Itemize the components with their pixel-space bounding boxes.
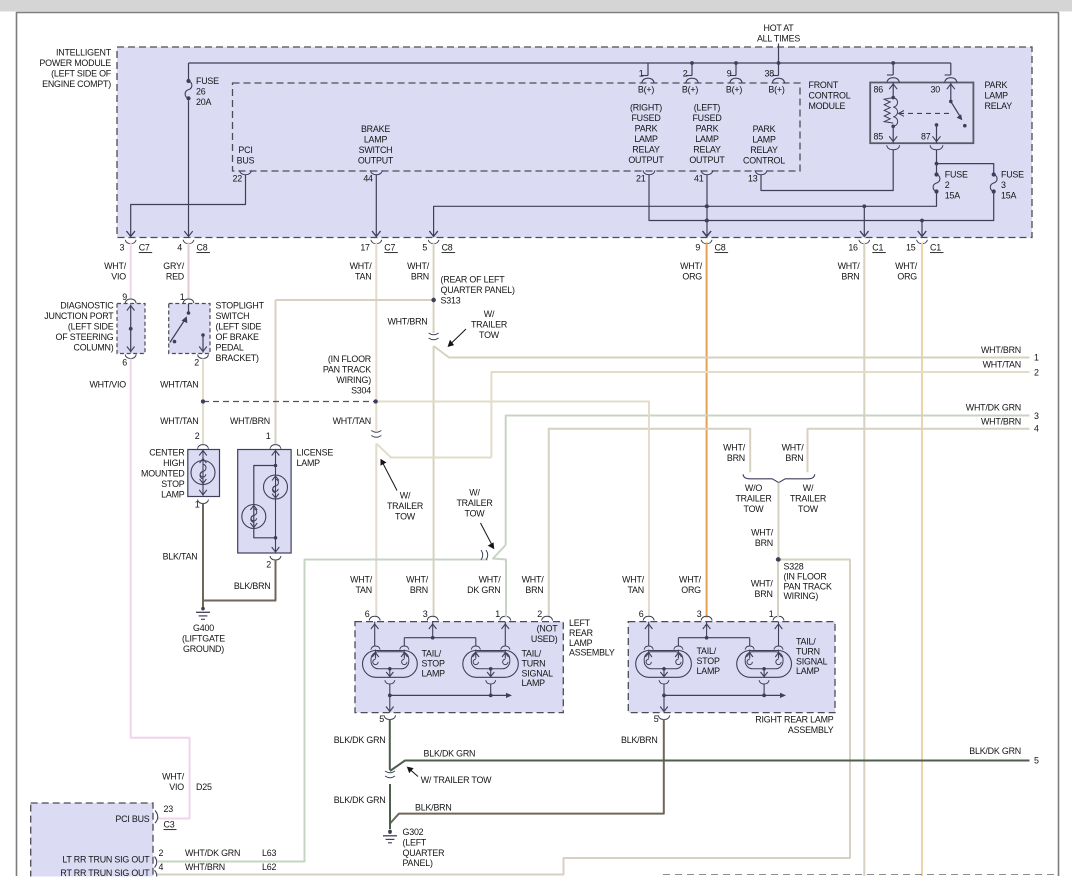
svg-text:TAN: TAN	[356, 585, 373, 595]
svg-text:RELAY: RELAY	[693, 145, 721, 155]
svg-text:2: 2	[266, 560, 271, 570]
connector arcs above DJP and stoplight switch	[125, 299, 136, 303]
svg-text:CENTER: CENTER	[149, 448, 184, 458]
svg-text:WHT/TAN: WHT/TAN	[160, 416, 198, 426]
svg-text:TRAILER: TRAILER	[471, 320, 507, 330]
module Right Rear Lamp Assembly box	[628, 622, 835, 713]
pin 1 FCM B+	[647, 63, 649, 76]
svg-text:BRN: BRN	[411, 272, 429, 282]
svg-text:15: 15	[906, 243, 916, 253]
svg-text:TRAILER: TRAILER	[790, 494, 826, 504]
svg-text:(REAR OF LEFT: (REAR OF LEFT	[441, 275, 506, 285]
wire WHT/BRN S328 to right lamp pin1	[777, 560, 779, 618]
wire 2 WHT/TAN	[491, 372, 1029, 458]
pin 23 arc	[155, 811, 158, 824]
svg-text:22: 22	[233, 174, 243, 184]
wire pin22 to connector 3-C7	[131, 175, 246, 237]
pin 86 stub	[892, 63, 894, 75]
svg-text:WHT/: WHT/	[162, 772, 185, 782]
svg-text:STOP: STOP	[161, 479, 184, 489]
svg-text:RED: RED	[166, 272, 184, 282]
pin 2 FCM B+	[691, 63, 693, 76]
connector arcs above lamps	[198, 445, 209, 449]
relay pin 87 wire	[935, 123, 939, 127]
svg-text:(IN FLOOR: (IN FLOOR	[784, 571, 827, 581]
svg-text:W/: W/	[484, 309, 495, 319]
svg-text:2: 2	[1034, 368, 1039, 378]
left lamp pin3 wire and tee	[432, 622, 434, 638]
wire fuse26 to connector 4-C8	[188, 101, 190, 237]
connector 4 C8	[184, 231, 192, 236]
svg-text:LAMP: LAMP	[297, 458, 321, 468]
pin 44 FCM brake lamp switch output	[370, 170, 382, 174]
svg-text:4: 4	[159, 862, 164, 872]
svg-text:RELAY: RELAY	[750, 145, 778, 155]
svg-text:RELAY: RELAY	[985, 101, 1013, 111]
svg-text:C7: C7	[384, 243, 395, 253]
svg-text:WHT/: WHT/	[723, 443, 746, 453]
svg-text:WHT/: WHT/	[622, 575, 645, 585]
svg-text:GRY/: GRY/	[163, 261, 184, 271]
arrow to pin1 junction break	[481, 523, 492, 544]
wire WHT/BRN continues down to left lamp pin3	[433, 346, 435, 618]
svg-text:VIO: VIO	[169, 782, 184, 792]
wire WHT/BRN trailer-tow branch to edge wire 1	[434, 346, 1030, 358]
svg-text:2: 2	[195, 431, 200, 441]
svg-text:RIGHT REAR LAMP: RIGHT REAR LAMP	[755, 715, 833, 725]
license lamp internal wires	[275, 450, 277, 538]
svg-text:(LEFT: (LEFT	[403, 837, 427, 847]
DJP internal bus wire	[130, 305, 132, 353]
wire WHT/VIO D25 from DJP pin6 to PCI bus connector	[131, 359, 190, 819]
svg-text:VIO: VIO	[111, 272, 126, 282]
svg-text:BRN: BRN	[525, 585, 543, 595]
wire net fuse3 output (line B)	[649, 175, 994, 221]
connector 5 C8	[429, 231, 437, 236]
svg-text:FUSE: FUSE	[1001, 170, 1024, 180]
svg-text:(LEFT): (LEFT)	[694, 103, 721, 113]
right lamp ground bus	[664, 694, 783, 696]
svg-text:TAN: TAN	[355, 272, 372, 282]
connector arc below CHMSL	[198, 500, 209, 504]
splice dot overlays S304 right	[374, 399, 378, 403]
connector 16 C1	[860, 231, 868, 236]
relay switch common wire with up arrow	[950, 83, 952, 102]
svg-text:TOW: TOW	[479, 330, 500, 340]
svg-text:44: 44	[363, 174, 373, 184]
svg-text:BRN: BRN	[410, 585, 428, 595]
splice S328 dot	[776, 557, 780, 561]
svg-text:4: 4	[1034, 424, 1039, 434]
svg-text:WHT/: WHT/	[751, 528, 774, 538]
right lamp pin arcs	[643, 616, 654, 620]
bulb right tail/stop	[636, 651, 692, 678]
svg-text:TOW: TOW	[744, 504, 765, 514]
wire WHT/TAN from stoplight pin2 to S304	[202, 359, 204, 402]
svg-text:(LEFT SIDE: (LEFT SIDE	[216, 322, 262, 332]
svg-text:1: 1	[639, 69, 644, 79]
svg-text:WHT/TAN: WHT/TAN	[160, 380, 198, 390]
svg-text:6: 6	[365, 609, 370, 619]
svg-text:PARK: PARK	[696, 124, 719, 134]
svg-text:STOP: STOP	[422, 658, 445, 668]
svg-text:ORG: ORG	[681, 585, 701, 595]
svg-text:LAMP: LAMP	[569, 638, 593, 648]
wire WHT/BRN S313 branch to license lamp	[276, 299, 434, 301]
wire GRY/RED from 4-C8 to stoplight pin1	[188, 243, 190, 300]
svg-text:S328: S328	[784, 562, 804, 572]
svg-text:FUSE: FUSE	[945, 170, 968, 180]
pin 38 FCM B+	[778, 63, 780, 76]
svg-text:3: 3	[423, 609, 428, 619]
svg-text:C3: C3	[164, 820, 175, 830]
svg-text:WHT/: WHT/	[406, 575, 429, 585]
svg-text:20A: 20A	[196, 97, 211, 107]
svg-text:WHT/BRN: WHT/BRN	[387, 317, 427, 327]
wire BLK/BRN from right lamp pin5 to G302	[390, 719, 664, 828]
pin 13 FCM relay control	[755, 170, 767, 174]
wire trailer-tow diagonal joining wire2	[376, 444, 491, 458]
module PCI bus junction box	[31, 803, 153, 883]
svg-text:SWITCH: SWITCH	[216, 311, 250, 321]
svg-text:BRN: BRN	[841, 272, 859, 282]
svg-text:WHT/DK GRN: WHT/DK GRN	[966, 403, 1021, 413]
svg-text:RELAY: RELAY	[632, 145, 660, 155]
svg-text:TURN: TURN	[522, 658, 546, 668]
svg-text:LAMP: LAMP	[796, 666, 820, 676]
svg-text:9: 9	[727, 69, 732, 79]
junction dots on rail	[690, 61, 694, 65]
svg-text:FUSE: FUSE	[196, 76, 219, 86]
bulb left tail/turn	[463, 651, 519, 678]
fuse F3	[992, 172, 996, 176]
svg-text:30: 30	[931, 85, 941, 95]
wire branch to 15-C1	[921, 221, 923, 237]
svg-text:WIRING): WIRING)	[784, 591, 819, 601]
left lamp pin5 connector	[384, 715, 396, 719]
svg-text:TAIL/: TAIL/	[796, 637, 816, 647]
wire pin44 to connector 17-C7	[375, 175, 377, 237]
svg-text:6: 6	[639, 609, 644, 619]
svg-text:PARK: PARK	[635, 124, 658, 134]
svg-text:USED): USED)	[531, 634, 558, 644]
brace option selector	[743, 474, 815, 482]
svg-text:LAMP: LAMP	[364, 135, 388, 145]
splice dot overlays S313	[431, 298, 435, 302]
svg-text:BRN: BRN	[755, 538, 773, 548]
right lamp pin6 wire into bulb	[648, 622, 650, 646]
svg-text:BRN: BRN	[785, 453, 803, 463]
svg-text:26: 26	[196, 87, 206, 97]
svg-text:TRAILER: TRAILER	[387, 501, 423, 511]
svg-text:(RIGHT): (RIGHT)	[630, 103, 662, 113]
module Stoplight Switch box	[169, 304, 210, 354]
svg-text:W/: W/	[803, 483, 814, 493]
svg-text:21: 21	[636, 174, 646, 184]
svg-text:BRN: BRN	[755, 589, 773, 599]
svg-text:WHT/VIO: WHT/VIO	[89, 380, 126, 390]
svg-text:W/: W/	[400, 491, 411, 501]
svg-text:WHT/: WHT/	[895, 261, 918, 271]
break W/TRAILER TOW on BLK/DK GRN	[385, 771, 395, 778]
svg-text:TURN: TURN	[796, 646, 820, 656]
svg-text:COLUMN): COLUMN)	[73, 343, 113, 353]
svg-text:WHT/TAN: WHT/TAN	[983, 360, 1021, 370]
svg-text:BLK/DK GRN: BLK/DK GRN	[969, 746, 1021, 756]
relay coil wire lower with down arrow	[892, 126, 894, 143]
svg-text:LAMP: LAMP	[985, 91, 1009, 101]
svg-text:41: 41	[694, 174, 704, 184]
svg-text:OUTPUT: OUTPUT	[628, 155, 664, 165]
right lamp pin3 wire and tee	[706, 622, 708, 638]
svg-text:QUARTER: QUARTER	[403, 848, 445, 858]
svg-text:86: 86	[874, 85, 884, 95]
wire net fuse2 output (line A)	[434, 194, 937, 237]
svg-text:REAR: REAR	[569, 628, 593, 638]
svg-text:G302: G302	[403, 827, 424, 837]
left lamp pin1 wire into bulb	[504, 622, 506, 646]
svg-text:9: 9	[695, 243, 700, 253]
svg-text:PANEL): PANEL)	[403, 858, 433, 868]
svg-text:WHT/: WHT/	[680, 261, 703, 271]
wire WHT/TAN from 17-C7 down to S304	[375, 243, 377, 402]
svg-text:BRACKET): BRACKET)	[216, 353, 260, 363]
svg-text:LAMP: LAMP	[161, 490, 185, 500]
wire B+ rail	[189, 62, 951, 64]
svg-text:5: 5	[379, 714, 384, 724]
arrow to break	[451, 329, 467, 344]
svg-text:B(+): B(+)	[726, 85, 742, 95]
svg-text:JUNCTION PORT: JUNCTION PORT	[44, 311, 114, 321]
svg-text:85: 85	[874, 132, 884, 142]
fuse F26 wire upper	[188, 63, 190, 79]
svg-text:SIGNAL: SIGNAL	[522, 668, 554, 678]
svg-text:C8: C8	[442, 243, 453, 253]
ground G400	[201, 607, 205, 611]
svg-text:C1: C1	[872, 243, 883, 253]
pin 9 FCM B+	[735, 63, 737, 76]
svg-text:1: 1	[266, 431, 271, 441]
svg-text:OF BRAKE: OF BRAKE	[216, 332, 260, 342]
svg-text:SWITCH: SWITCH	[359, 145, 393, 155]
stoplight switch output stub	[202, 335, 204, 353]
break W/TRAILER TOW on left pin6 wire	[371, 431, 381, 438]
wire relay85 to pin13	[761, 150, 893, 191]
svg-text:QUARTER PANEL): QUARTER PANEL)	[441, 285, 516, 295]
svg-text:PARK: PARK	[985, 80, 1008, 90]
svg-text:DIAGNOSTIC: DIAGNOSTIC	[60, 301, 114, 311]
svg-text:FUSED: FUSED	[692, 113, 721, 123]
relay bottom pin arcs	[887, 145, 900, 150]
svg-text:TRAILER: TRAILER	[456, 498, 492, 508]
wire 3 WHT/DK GRN	[506, 416, 1030, 546]
wire pin41 to connector 9-C8	[706, 175, 708, 237]
svg-text:BLK/BRN: BLK/BRN	[234, 581, 271, 591]
splice S304 dashed wire	[203, 401, 376, 403]
module Left Rear Lamp Assembly box	[355, 622, 563, 713]
connector arc below license lamp	[270, 556, 281, 560]
svg-text:GROUND): GROUND)	[183, 644, 224, 654]
svg-text:5: 5	[422, 243, 427, 253]
svg-text:15A: 15A	[945, 191, 960, 201]
bulb left tail/stop	[363, 651, 418, 678]
svg-text:W/O: W/O	[745, 483, 762, 493]
wire resumes to left lamp pin6	[375, 444, 377, 618]
connector 15 C1	[918, 231, 926, 236]
svg-text:DK GRN: DK GRN	[467, 585, 500, 595]
right lamp pin1 wire into bulb	[778, 622, 780, 646]
svg-text:C1: C1	[930, 243, 941, 253]
lamp CHMSL box	[188, 450, 220, 497]
svg-text:1: 1	[495, 609, 500, 619]
svg-text:B(+): B(+)	[768, 85, 784, 95]
svg-text:WHT/BRN: WHT/BRN	[230, 416, 270, 426]
wire WHT/TAN from S304 down to left lamp pin6	[375, 402, 377, 431]
svg-text:15A: 15A	[1001, 191, 1016, 201]
svg-text:38: 38	[765, 69, 775, 79]
svg-text:16: 16	[848, 243, 858, 253]
wire BLK/DK GRN resumes to G302	[389, 784, 391, 829]
svg-text:MODULE: MODULE	[809, 101, 846, 111]
relay K1 Park Lamp Relay box	[870, 83, 973, 144]
svg-text:WHT/: WHT/	[751, 579, 774, 589]
svg-text:ASSEMBLY: ASSEMBLY	[788, 725, 834, 735]
svg-text:PAN TRACK: PAN TRACK	[323, 365, 371, 375]
module IPM box (Intelligent Power Module)	[117, 47, 1032, 238]
svg-text:ALL TIMES: ALL TIMES	[757, 33, 800, 43]
wire WHT/DK GRN L63	[157, 560, 488, 862]
wire BLK/BRN from license lamp to G400	[203, 560, 276, 601]
svg-text:ORG: ORG	[682, 272, 702, 282]
relay coil wire upper with up arrow	[892, 83, 894, 98]
splice dot overlays S304 left	[201, 399, 205, 403]
svg-text:LAMP: LAMP	[752, 135, 776, 145]
svg-text:OUTPUT: OUTPUT	[689, 155, 725, 165]
pin 30 stub	[950, 63, 952, 75]
break W/TRAILER TOW on S313 wire	[429, 333, 439, 340]
svg-text:WHT/: WHT/	[350, 261, 373, 271]
svg-text:(LEFT SIDE OF: (LEFT SIDE OF	[51, 69, 112, 79]
wire BLK/TAN from CHMSL to G400	[202, 504, 204, 608]
svg-text:BLK/DK GRN: BLK/DK GRN	[334, 735, 386, 745]
svg-text:2: 2	[683, 69, 688, 79]
svg-text:TOW: TOW	[465, 509, 486, 519]
svg-text:2: 2	[159, 848, 164, 858]
pin 2 arc	[155, 857, 157, 868]
svg-text:L62: L62	[262, 862, 276, 872]
svg-text:ASSEMBLY: ASSEMBLY	[569, 648, 615, 658]
svg-text:SIGNAL: SIGNAL	[796, 656, 828, 666]
svg-text:LAMP: LAMP	[522, 678, 546, 688]
svg-text:TAIL/: TAIL/	[522, 649, 542, 659]
svg-text:BRN: BRN	[727, 453, 745, 463]
svg-text:S313: S313	[441, 296, 461, 306]
svg-text:B(+): B(+)	[638, 85, 654, 95]
svg-text:BLK/BRN: BLK/BRN	[415, 803, 452, 813]
svg-text:(NOT: (NOT	[537, 624, 559, 634]
dashed cut line at bottom right	[663, 874, 1058, 876]
left lamp pin6 wire into bulb	[374, 622, 376, 646]
svg-text:HIGH: HIGH	[163, 458, 184, 468]
svg-text:HOT AT: HOT AT	[763, 23, 794, 33]
break W/TRAILER TOW near left pin1	[481, 550, 488, 560]
wire WHT/TAN from S304 to CHMSL pin2	[202, 402, 204, 445]
svg-text:PCI: PCI	[238, 145, 252, 155]
svg-text:C8: C8	[197, 243, 208, 253]
wire WHT/BRN S328 branch to RT RR TRUN SIG OUT	[157, 560, 850, 875]
wire hot feed vertical	[778, 44, 780, 64]
svg-text:WHT/BRN: WHT/BRN	[981, 417, 1021, 427]
svg-text:LT RR TRUN SIG OUT: LT RR TRUN SIG OUT	[62, 854, 150, 864]
svg-text:INTELLIGENT: INTELLIGENT	[56, 48, 112, 58]
ground G302	[388, 830, 392, 834]
connector arcs below DJP and stoplight switch	[125, 355, 136, 359]
svg-text:BLK/DK GRN: BLK/DK GRN	[424, 748, 476, 758]
svg-text:LAMP: LAMP	[697, 666, 721, 676]
svg-text:WHT/: WHT/	[479, 575, 502, 585]
svg-text:WIRING): WIRING)	[336, 375, 371, 385]
svg-text:5: 5	[1034, 756, 1039, 766]
svg-text:BUS: BUS	[237, 156, 255, 166]
svg-text:WHT/: WHT/	[679, 575, 702, 585]
svg-text:CONTROL: CONTROL	[743, 156, 785, 166]
svg-text:LICENSE: LICENSE	[297, 448, 334, 458]
svg-text:2: 2	[537, 609, 542, 619]
wire WHT/TAN S304 to right lamp pin6	[376, 402, 649, 618]
pin 4 arc	[155, 870, 157, 881]
svg-text:5: 5	[654, 714, 659, 724]
jog wire2 into pin1 wire	[493, 545, 506, 618]
svg-text:FRONT: FRONT	[809, 80, 839, 90]
svg-text:87: 87	[921, 132, 931, 142]
svg-text:TOW: TOW	[395, 512, 416, 522]
svg-text:ORG: ORG	[897, 272, 917, 282]
svg-text:(LEFT SIDE: (LEFT SIDE	[68, 322, 114, 332]
svg-text:3: 3	[697, 609, 702, 619]
svg-text:23: 23	[164, 804, 174, 814]
svg-text:WHT/: WHT/	[782, 443, 805, 453]
svg-text:WHT/: WHT/	[838, 261, 861, 271]
svg-text:WHT/: WHT/	[104, 261, 127, 271]
splice dot overlays S328	[776, 557, 780, 561]
wire from brace to S328	[778, 483, 780, 560]
svg-text:PAN TRACK: PAN TRACK	[784, 581, 832, 591]
wire BLK/DK GRN from left lamp pin5	[389, 719, 391, 770]
license bulb E1	[272, 476, 279, 480]
wire WHT/BRN from 16-C1 to bottom	[863, 243, 865, 877]
svg-text:TAIL/: TAIL/	[697, 646, 717, 656]
svg-text:LAMP: LAMP	[695, 134, 719, 144]
svg-text:WHT/BRN: WHT/BRN	[185, 862, 225, 872]
svg-text:L63: L63	[262, 848, 276, 858]
module Diagnostic Junction Port box	[117, 304, 145, 354]
svg-text:C8: C8	[715, 243, 726, 253]
svg-text:W/ TRAILER TOW: W/ TRAILER TOW	[421, 775, 492, 785]
svg-text:TOW: TOW	[798, 504, 819, 514]
svg-text:LAMP: LAMP	[634, 134, 658, 144]
svg-text:(IN FLOOR: (IN FLOOR	[328, 354, 371, 364]
svg-text:WHT/DK GRN: WHT/DK GRN	[185, 848, 240, 858]
wire WHT/BRN from 5-C8 down	[433, 243, 435, 334]
wire 4 WHT/BRN left segment from NOT USED pin	[549, 429, 750, 618]
svg-text:13: 13	[748, 174, 758, 184]
connector 3 C7	[127, 231, 135, 236]
svg-text:3: 3	[1001, 180, 1006, 190]
module FCM box (Front Control Module)	[233, 83, 801, 171]
svg-text:BLK/DK GRN: BLK/DK GRN	[334, 795, 386, 805]
svg-text:OF STEERING: OF STEERING	[56, 332, 114, 342]
svg-text:WHT/: WHT/	[350, 575, 373, 585]
